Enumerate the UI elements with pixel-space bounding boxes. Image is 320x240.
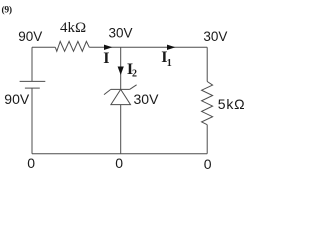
- svg-text:2: 2: [132, 68, 137, 79]
- svg-text:(9): (9): [2, 4, 12, 15]
- zener diode D1 bar: [111, 88, 130, 90]
- current arrow I1: [167, 45, 175, 50]
- svg-text:90V: 90V: [18, 29, 42, 44]
- wire right vertical lower: [206, 125, 208, 154]
- svg-text:1: 1: [167, 58, 172, 69]
- current arrow I2: [118, 67, 124, 76]
- wire top-right segment: [89, 46, 207, 48]
- resistor R2 5kohm zigzag: [202, 82, 213, 125]
- wire zener branch lower: [120, 105, 122, 154]
- svg-text:I: I: [103, 50, 109, 67]
- wire right vertical upper: [206, 47, 208, 81]
- zener diode D1 bar left tail: [104, 89, 111, 94]
- wire bottom: [32, 153, 207, 155]
- battery 90V long plate: [20, 80, 46, 82]
- svg-text:30V: 30V: [109, 26, 133, 41]
- resistor R1 4kohm zigzag: [55, 41, 89, 51]
- wire left vertical lower: [31, 88, 33, 154]
- battery 90V short plate: [25, 87, 40, 89]
- zener diode D1 triangle: [111, 89, 131, 104]
- current arrow I: [104, 45, 112, 50]
- wire left vertical upper: [31, 47, 33, 81]
- svg-text:5kΩ: 5kΩ: [218, 96, 246, 112]
- svg-text:30V: 30V: [134, 91, 160, 107]
- wire zener branch upper: [120, 47, 122, 89]
- svg-text:30V: 30V: [203, 29, 227, 44]
- svg-text:4kΩ: 4kΩ: [60, 20, 86, 36]
- svg-text:0: 0: [115, 155, 123, 171]
- wire top-left segment: [32, 46, 55, 48]
- svg-text:0: 0: [27, 155, 35, 171]
- svg-text:0: 0: [204, 156, 212, 172]
- zener diode D1 bar right tail: [130, 85, 137, 90]
- svg-text:90V: 90V: [4, 91, 30, 107]
